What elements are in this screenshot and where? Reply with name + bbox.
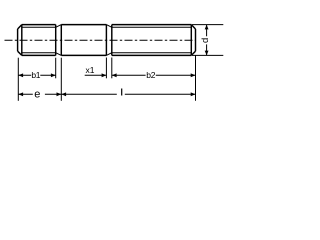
extension line x1 right / b2 left xyxy=(111,58,113,79)
arrow x1 left xyxy=(102,73,107,77)
end of full thread line left xyxy=(55,25,57,56)
arrow b1 right xyxy=(51,73,56,77)
extension line right end xyxy=(195,55,197,100)
b1 dimension line xyxy=(18,74,55,76)
b2 dimension line xyxy=(112,74,196,76)
extension line b1 right xyxy=(55,58,57,79)
svg-text:b1: b1 xyxy=(31,70,40,80)
left thread root bottom xyxy=(22,52,56,54)
left thread major bottom xyxy=(22,54,56,56)
shank bottom xyxy=(61,54,106,56)
d extension line bottom xyxy=(192,54,223,56)
svg-text:e: e xyxy=(34,88,40,100)
extension line x1 left xyxy=(105,58,107,79)
right runout diagonal top xyxy=(106,25,111,28)
right thread major top xyxy=(112,24,192,26)
e dimension line xyxy=(18,93,61,95)
arrow l left xyxy=(61,92,66,96)
shank top xyxy=(61,24,106,26)
left runout diagonal top xyxy=(56,25,62,28)
extension line e right / l left xyxy=(60,58,62,101)
left chamfer line xyxy=(21,25,23,56)
left chamfer bevel top xyxy=(18,25,22,29)
label l (drawn as bar) xyxy=(121,89,122,96)
arrow d top xyxy=(205,25,209,30)
l dimension line xyxy=(61,93,195,95)
centerline xyxy=(5,39,197,41)
arrow x1 right / b2 left xyxy=(112,73,117,77)
left thread major top xyxy=(22,24,56,26)
svg-text:d: d xyxy=(200,38,211,43)
svg-text:x1: x1 xyxy=(86,65,95,75)
arrow l right xyxy=(191,92,196,96)
stud right end face xyxy=(195,29,197,51)
arrow b1 left xyxy=(18,73,23,77)
x1 leader line xyxy=(85,74,107,76)
right chamfer bevel top xyxy=(191,25,195,29)
d dimension line xyxy=(206,25,208,56)
right thread major bottom xyxy=(112,54,192,56)
stud left end face xyxy=(17,29,19,51)
d extension line top xyxy=(192,24,223,26)
left runout diagonal bottom xyxy=(56,53,62,56)
full thread start line right xyxy=(111,25,113,56)
shank end line xyxy=(105,25,107,56)
shank start line xyxy=(60,25,62,56)
left chamfer bevel bottom xyxy=(18,51,22,55)
arrow d bottom xyxy=(205,51,209,56)
arrow b2 right xyxy=(191,73,196,77)
right thread root top xyxy=(112,26,192,28)
extension line left end xyxy=(17,58,19,101)
right thread root bottom xyxy=(112,52,192,54)
right runout diagonal bottom xyxy=(106,53,111,56)
right chamfer bevel bottom xyxy=(191,51,195,55)
right chamfer line xyxy=(190,25,192,56)
arrow e left xyxy=(18,92,23,96)
svg-text:b2: b2 xyxy=(146,70,155,80)
left thread root top xyxy=(22,26,56,28)
arrow e right xyxy=(57,92,62,96)
